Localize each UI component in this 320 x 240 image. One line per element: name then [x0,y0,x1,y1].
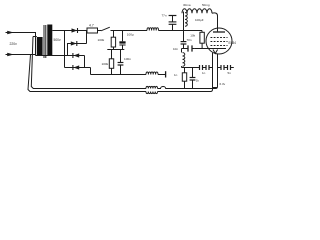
svg-text:10k: 10k [190,33,195,37]
wire secondary top to rail [52,30,87,32]
coupling capacitor C6 horizontal [182,45,195,51]
svg-text:EL84: EL84 [229,41,237,45]
capacitor C4 [190,68,196,89]
wire coil to plate [212,13,218,31]
tube grid g3 [211,45,228,47]
heater U bar [213,87,218,89]
rail wire after L1 [159,30,203,32]
tube plate [213,31,225,33]
inner bus riser to tube [216,54,218,89]
wire D3 down [84,56,86,68]
transformer T1 primary winding [37,37,43,56]
resistor R3 [182,68,186,89]
inductor L6 on inner bus [146,86,158,88]
transformer T1 secondary winding [47,25,52,56]
wire to output terminal [158,74,165,76]
svg-text:4.7: 4.7 [89,24,94,28]
diode D4 [73,65,79,70]
wire secondary bottom row [36,55,85,57]
wire crossed feed to primary top [33,36,37,38]
wire from top arrow to transformer [14,32,37,34]
tube grid g1 [211,41,228,43]
svg-text:10n: 10n [173,47,178,51]
svg-text:1n: 1n [202,71,206,75]
inner bus hop [158,87,216,89]
svg-text:100µF: 100µF [195,18,204,22]
svg-text:1n: 1n [174,73,178,77]
transformer core [43,25,45,58]
svg-text:77n: 77n [162,14,167,18]
capacitor C1 100u electrolytic [119,31,125,50]
svg-text:6.3v: 6.3v [220,82,226,86]
wire resistor to switch [98,30,102,32]
tube grid g2 [211,37,228,39]
output terminal bar [165,71,167,77]
tube V1 envelope [206,28,232,54]
svg-text:220v: 220v [10,42,18,46]
svg-text:5n: 5n [228,71,232,75]
svg-text:500v: 500v [54,38,62,42]
coil L4 vertical left of tube [182,49,185,68]
node junction vertical [64,31,66,68]
diode D2 [71,41,77,46]
heater bus outer line [34,91,146,93]
diode D3 [73,53,79,58]
resistor R1 100k drop [111,31,115,50]
wire rectifier output down to return rail [90,68,92,75]
heater wire left riser to bottom bus outer [28,55,34,92]
capacitor C7 pair left of cathode [195,65,213,70]
resistor R5 4.7 [87,28,98,33]
inductor L5 on return wire [146,72,158,75]
switch S1 [101,27,110,31]
svg-text:1k: 1k [196,78,200,82]
svg-text:100n: 100n [124,57,131,61]
diode D2 row wire [68,44,87,56]
outer bus riser to tube [211,53,213,92]
B+ rail wire [111,30,148,32]
svg-text:100k: 100k [102,62,109,66]
wire node W [107,49,124,51]
heater wire right riser to bottom bus inner [31,37,37,89]
diode D4 row wire [65,67,91,69]
heater bus inner line [37,88,146,90]
svg-text:100k: 100k [98,38,105,42]
diode D1 [72,28,78,33]
svg-text:70n: 70n [187,38,192,42]
mains input terminal bottom arrow [6,53,14,57]
return wire lower rail [91,74,147,76]
mains input terminal top arrow [6,31,14,35]
wire D2 to rail [86,31,88,44]
capacitor C2 100n [118,50,124,75]
svg-text:30ma: 30ma [183,3,191,7]
inductor L7 on outer bus [146,92,158,94]
output transformer coil L3 top [182,9,212,13]
svg-text:50mg: 50mg [202,3,210,7]
inductor L1 on rail [147,28,159,31]
tube cathode line [195,48,226,50]
wire from bottom arrow [14,54,36,56]
capacitor C8 pair right of cathode [218,65,234,70]
wire vertical from top arrow down primary left [35,33,37,56]
outer bus to corner [158,91,211,93]
grid resistor R4 [200,31,204,49]
svg-text:100µ: 100µ [127,33,134,37]
tube heater [213,50,218,54]
wire cathode bottom row [182,67,196,69]
capacitor C5 from rail [181,31,187,49]
choke L2 vertical [184,12,188,31]
resistor R2 [109,50,113,75]
capacitor C3 77n up from rail [169,16,177,31]
